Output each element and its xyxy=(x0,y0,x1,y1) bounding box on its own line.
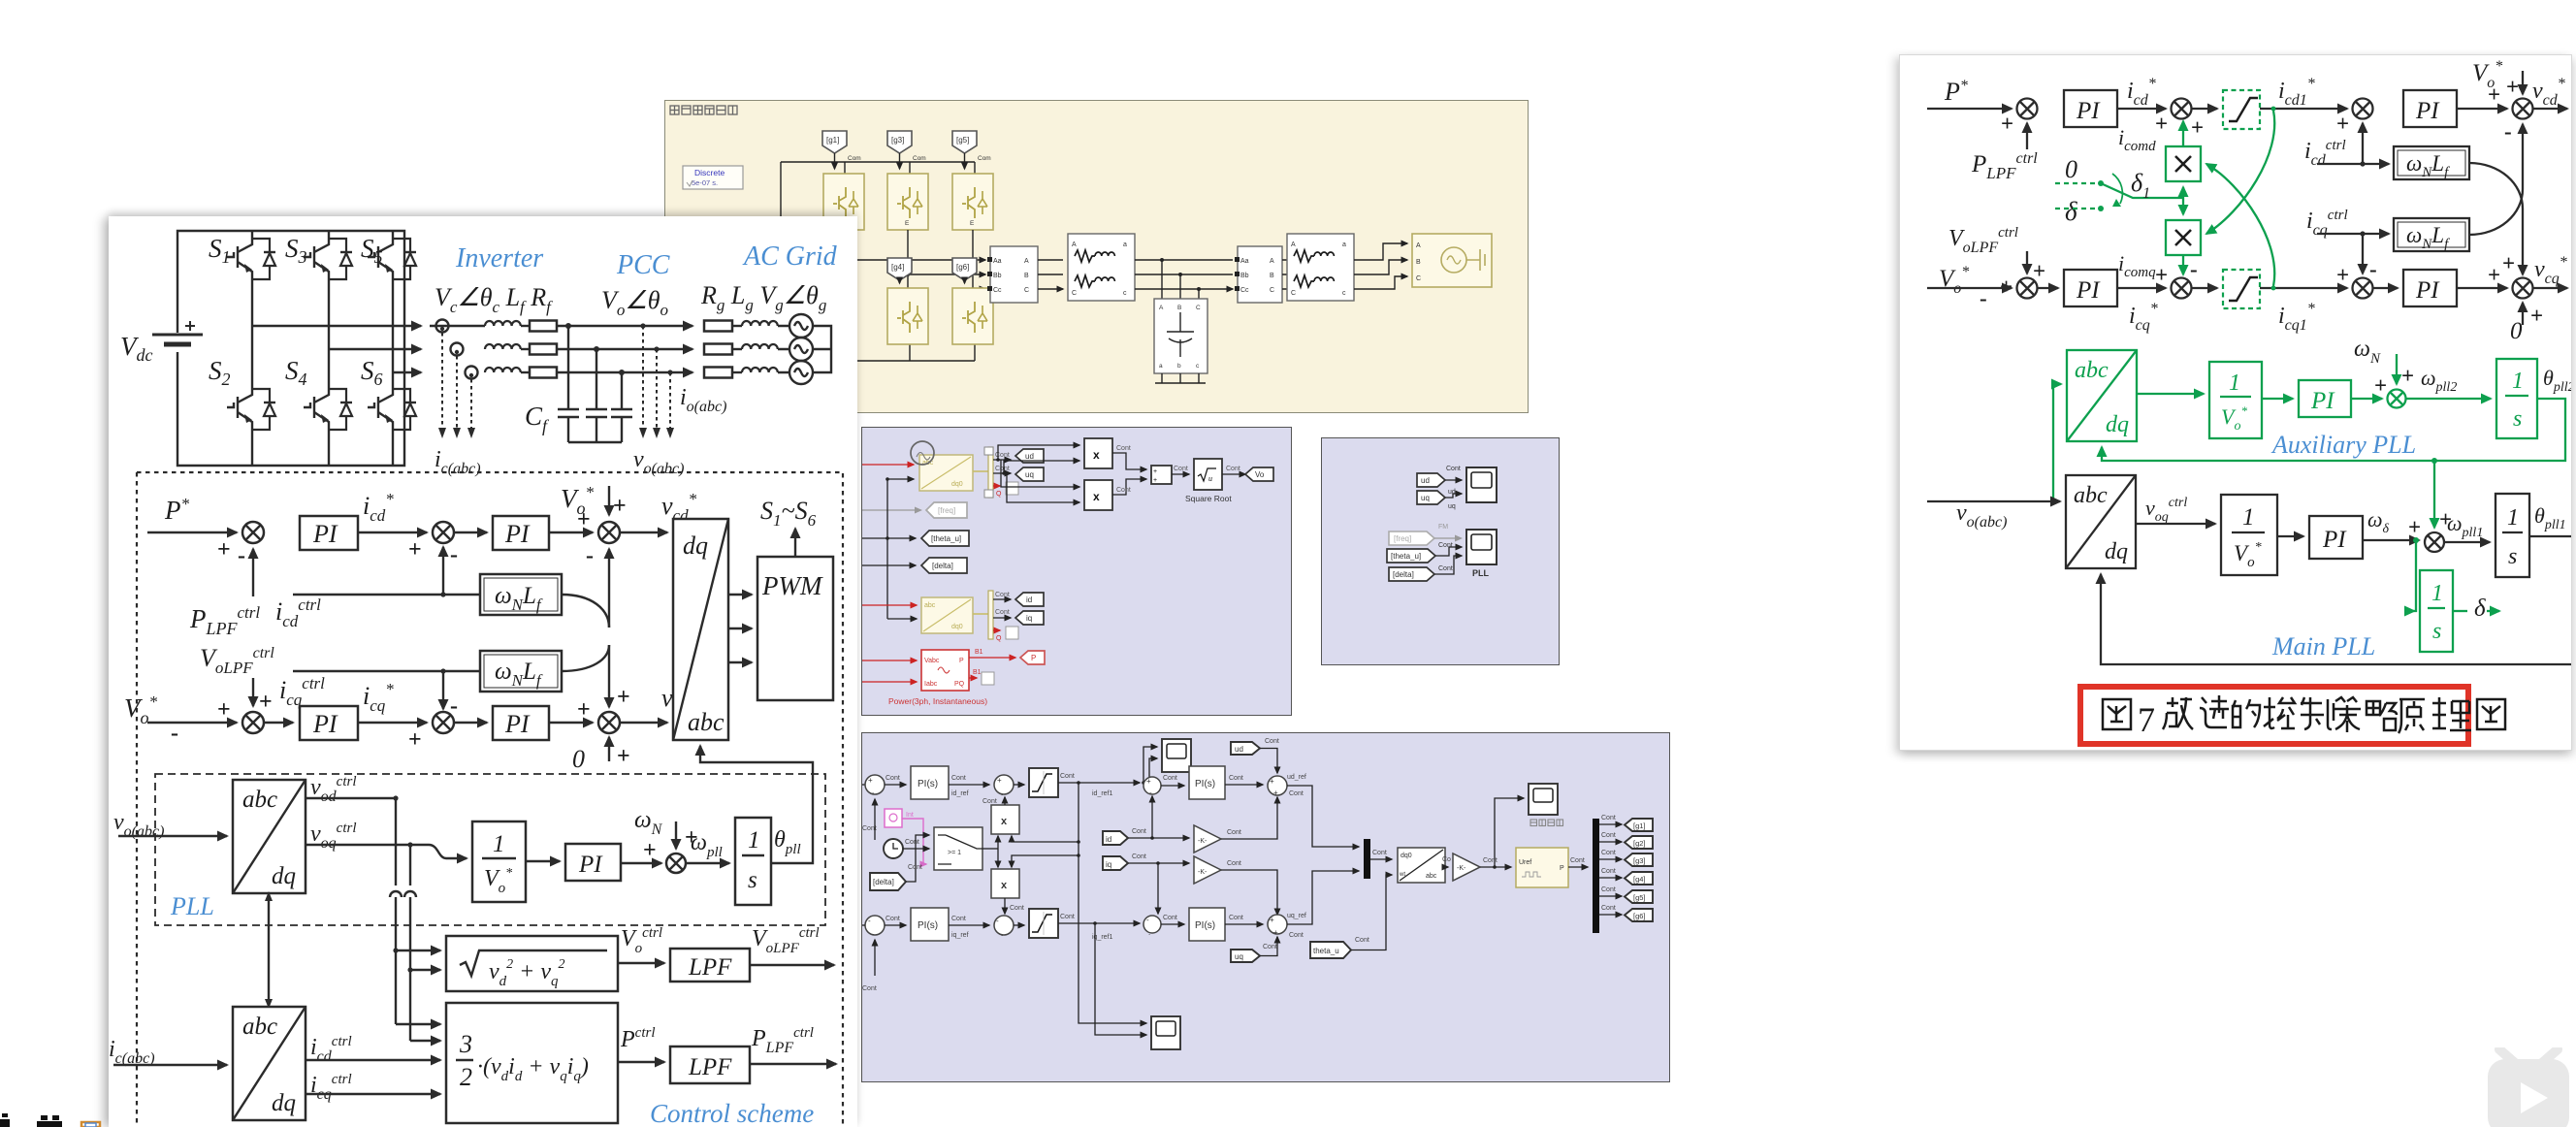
goto tag iq xyxy=(1015,611,1044,625)
dashed measurement ic c xyxy=(470,379,472,428)
svg-text:C: C xyxy=(1416,275,1421,282)
svg-text:+: + xyxy=(2502,251,2515,275)
capacitor Cf phase b xyxy=(586,349,607,442)
wire phase b from leg2 xyxy=(329,348,421,350)
svg-text:Cont: Cont xyxy=(1163,775,1177,782)
svg-text:Cont: Cont xyxy=(995,592,1010,598)
svg-text:ic(abc): ic(abc) xyxy=(435,447,481,477)
wires meas2 to RLC2 xyxy=(1281,259,1283,261)
svg-text:Cont: Cont xyxy=(1570,857,1585,864)
svg-text:LPF: LPF xyxy=(688,954,732,981)
wire summid to sat2 xyxy=(1014,924,1024,926)
svg-text:[g1]: [g1] xyxy=(826,136,839,145)
svg-text:δ: δ xyxy=(2474,596,2486,622)
svg-text:voqctrl: voqctrl xyxy=(2145,496,2187,525)
svg-text:s: s xyxy=(2513,406,2522,432)
wire delta xyxy=(862,564,916,566)
wire vcd out xyxy=(2532,108,2567,110)
svg-text:.: . xyxy=(1148,928,1150,937)
wire demux to ud xyxy=(993,459,1011,461)
svg-text:icd*: icd* xyxy=(363,490,394,525)
svg-text:Com: Com xyxy=(913,155,926,162)
svg-text:A: A xyxy=(1024,258,1029,265)
wire phase C to measurement xyxy=(973,288,985,290)
PI controller box 3 xyxy=(300,706,358,740)
svg-text:Cont: Cont xyxy=(1227,860,1241,867)
wire PLPF into sum r1 xyxy=(2026,123,2028,149)
multiply block 2 xyxy=(1084,480,1112,510)
sum junction r2 xyxy=(2172,99,2192,119)
wire demux2 to id xyxy=(993,598,1011,600)
clock block xyxy=(884,839,903,858)
svg-text:Cont: Cont xyxy=(1438,542,1453,549)
PI box r3 xyxy=(2064,270,2117,306)
wire PI r1 to sum r2 xyxy=(2117,108,2166,110)
svg-text:Square Root: Square Root xyxy=(1185,494,1232,503)
wire black into dq0-1 xyxy=(887,478,914,480)
svg-text:[g4]: [g4] xyxy=(1633,875,1646,884)
svg-text:+: + xyxy=(2506,75,2519,99)
svg-text:vo(abc): vo(abc) xyxy=(633,447,684,477)
wire sat1 to sum4 xyxy=(1058,782,1140,784)
svg-text:Cont: Cont xyxy=(995,466,1010,472)
wire demux2 to iq xyxy=(993,617,1011,619)
bottom-left glyph fragments xyxy=(0,1113,116,1127)
goto tag uq xyxy=(1015,467,1044,481)
three phase VI measurement 1 xyxy=(987,246,1038,303)
caption glyph jin xyxy=(2200,695,2229,727)
wires into multiply 2 xyxy=(1001,460,1079,487)
current sensor phase b xyxy=(451,343,464,356)
from tag delta c xyxy=(870,873,906,890)
sum junction c2 xyxy=(994,775,1014,794)
svg-text:B: B xyxy=(1024,273,1029,279)
svg-text:LPF: LPF xyxy=(688,1054,732,1080)
scope c-bottom xyxy=(1151,1016,1180,1049)
capacitor Cf phase a xyxy=(558,326,579,442)
svg-text:PI: PI xyxy=(2322,527,2347,553)
svg-text:ωN: ωN xyxy=(634,807,663,838)
svg-text:uq: uq xyxy=(1235,952,1243,961)
svg-text:Uref: Uref xyxy=(1519,859,1531,866)
svg-text:ud: ud xyxy=(1025,452,1034,461)
svg-text:PI(s): PI(s) xyxy=(918,779,938,789)
wire sum r5 to PI r3 xyxy=(2037,287,2058,289)
wire freq xyxy=(862,509,920,511)
wire into sum1 xyxy=(862,784,865,786)
caption glyph li xyxy=(2432,697,2471,730)
wire sqrt to Vo tag xyxy=(1222,473,1245,475)
sum junction 7 xyxy=(666,853,686,873)
IGBT block bottom 2 xyxy=(887,288,928,344)
svg-text:[freq]: [freq] xyxy=(1394,534,1411,543)
sum block xyxy=(1151,466,1172,484)
wire gain1 to sum6 bottom xyxy=(1221,797,1277,839)
svg-text:abc: abc xyxy=(1426,873,1437,880)
svg-text:x: x xyxy=(1001,880,1008,891)
svg-text:x: x xyxy=(1093,448,1100,462)
dashed measurement ic a xyxy=(441,333,443,428)
PI(s) block 2 xyxy=(911,908,949,941)
green wire X1 up to sum r2 xyxy=(2182,145,2184,146)
svg-text:Cc: Cc xyxy=(993,287,1002,294)
wire LPF1 out xyxy=(750,964,834,966)
sum junction 2 xyxy=(433,522,454,543)
wire PLPF to sum1 xyxy=(252,549,254,596)
wire PI4 to sum6 xyxy=(549,722,593,724)
PI controller box 1 xyxy=(300,516,358,550)
IGBT S2 xyxy=(227,381,275,437)
main integrator block xyxy=(2495,494,2529,577)
wire limiter2 to sum r7 xyxy=(2260,287,2347,289)
wire grid phase B xyxy=(1354,260,1407,274)
sum junction 1 xyxy=(242,522,264,543)
svg-text:Com: Com xyxy=(848,155,861,162)
IGBT S6 xyxy=(368,381,416,437)
goto tag P red xyxy=(1020,651,1045,664)
svg-text:+: + xyxy=(2336,263,2349,287)
svg-text:Co: Co xyxy=(1442,856,1451,863)
phase drop column2 xyxy=(907,230,909,288)
svg-text:icdctrl: icdctrl xyxy=(275,596,321,630)
switch lever xyxy=(2101,183,2183,198)
wire theta pll feedback to dq block xyxy=(700,746,813,863)
svg-text:+: + xyxy=(577,697,591,723)
wire sat2 to sum5 xyxy=(1058,922,1140,924)
from tag ud c xyxy=(1231,742,1260,755)
svg-text:B: B xyxy=(1416,259,1421,266)
abc to dq transform block 2 xyxy=(233,1007,306,1120)
main abc-dq block xyxy=(2066,475,2136,568)
svg-text:+: + xyxy=(2336,112,2349,136)
svg-text:[g3]: [g3] xyxy=(891,136,904,145)
dashed measurement vo c xyxy=(669,372,671,428)
wire iq to gain2 xyxy=(1128,862,1189,864)
simulink measurement panel (lavender A) xyxy=(861,427,1292,716)
dq to abc transform block xyxy=(673,519,728,740)
svg-text:+: + xyxy=(1273,928,1278,937)
svg-text:+: + xyxy=(2374,373,2387,398)
wire demux to g4 xyxy=(1599,877,1622,879)
svg-text:C: C xyxy=(1072,290,1077,297)
from tag g4 xyxy=(887,258,912,280)
resistor Rg phase b xyxy=(704,344,732,355)
svg-text:a: a xyxy=(1342,241,1346,248)
inductor Lf phase c xyxy=(485,368,521,372)
wires into power block from taps xyxy=(396,1023,440,1025)
svg-text:Iabc: Iabc xyxy=(924,681,938,688)
svg-text:s: s xyxy=(2508,544,2517,569)
green input into aux abc-dq xyxy=(2053,384,2061,501)
resistor Rf phase c xyxy=(521,371,530,373)
svg-text:5e-07 s.: 5e-07 s. xyxy=(692,178,718,187)
svg-text:Cont: Cont xyxy=(951,916,966,922)
svg-text:Cont: Cont xyxy=(1446,466,1461,472)
svg-text:Com: Com xyxy=(978,155,991,162)
svg-text:+: + xyxy=(2033,259,2045,283)
svg-text:1: 1 xyxy=(493,831,505,857)
svg-text:B1: B1 xyxy=(975,649,983,656)
svg-text:S2: S2 xyxy=(209,356,231,389)
svg-text:PLPFctrl: PLPFctrl xyxy=(751,1025,814,1056)
pink wire to switch xyxy=(902,819,926,864)
svg-text:PI: PI xyxy=(312,710,338,738)
svg-text:P*: P* xyxy=(1944,78,1968,106)
sum junction c5 xyxy=(1143,916,1161,933)
wire id to gain1 xyxy=(1128,837,1189,839)
svg-text:Cf: Cf xyxy=(525,402,550,435)
from tag g6 xyxy=(952,258,977,280)
svg-text:C: C xyxy=(1291,290,1296,297)
wire icd ctrl feed xyxy=(293,594,480,596)
goto tag delta xyxy=(921,558,967,573)
from tag uq c xyxy=(1231,950,1260,962)
wire icq ctrl feed r xyxy=(2317,233,2389,235)
svg-text:[g5]: [g5] xyxy=(956,136,969,145)
svg-text:>= 1: >= 1 xyxy=(948,850,961,856)
wire PI1 to sum2 xyxy=(949,784,989,786)
wire sum5 to PI4 xyxy=(1161,923,1184,925)
riser id to sum4 xyxy=(1150,836,1154,840)
AC source Vg phase c xyxy=(789,361,813,384)
PLL dashed box xyxy=(155,774,825,925)
svg-text:+: + xyxy=(1270,777,1274,786)
PI controller box 5 xyxy=(565,844,621,881)
wires into sqrt xyxy=(396,950,440,951)
bilibili play logo xyxy=(2486,1047,2576,1127)
svg-text:VoLPFctrl: VoLPFctrl xyxy=(752,925,820,956)
svg-text:3: 3 xyxy=(459,1030,472,1058)
svg-text:C: C xyxy=(1024,287,1029,294)
wire grid phase C xyxy=(1354,276,1407,289)
green feedback theta pll2 xyxy=(2102,399,2565,461)
svg-text:ωδ: ωδ xyxy=(2367,507,2390,536)
main input wire xyxy=(1927,500,2060,502)
cross coupling curve from wNLf1 down xyxy=(562,595,609,628)
svg-text:+: + xyxy=(2488,263,2500,287)
svg-text:+: + xyxy=(2155,112,2168,136)
simulink inner control panel (lavender C) xyxy=(861,732,1670,1082)
svg-text:FM: FM xyxy=(1438,524,1448,531)
AC source Vg phase a xyxy=(789,314,813,338)
svg-text:Inverter: Inverter xyxy=(455,243,543,274)
from tag ud xyxy=(1417,473,1445,487)
gate wires g4 g6 xyxy=(899,280,901,283)
svg-text:VoLPFctrl: VoLPFctrl xyxy=(1948,225,2018,256)
goto tag Vo xyxy=(1245,467,1273,481)
sum junction r8 xyxy=(2513,278,2533,299)
wire PWM to S1~S6 xyxy=(794,529,796,557)
inverter leg 1 wire xyxy=(251,287,253,466)
wires dq block to PWM xyxy=(728,594,752,596)
riser iq to sum5 xyxy=(1156,861,1160,865)
goto tag g3 xyxy=(1625,853,1653,866)
svg-text:+: + xyxy=(617,685,630,710)
from tag delta xyxy=(1389,567,1434,581)
demux bar 2 xyxy=(973,613,988,615)
LPF box 1 xyxy=(670,949,750,982)
red caption box xyxy=(2080,687,2468,744)
svg-text:Cont: Cont xyxy=(982,798,997,805)
wire limiter1 to sum r3 xyxy=(2260,108,2347,110)
svg-text:+: + xyxy=(217,697,231,723)
phase drop column1 xyxy=(843,230,845,288)
wire Vo* to sum r5 xyxy=(1927,287,2012,289)
wire red into dq0-1 xyxy=(862,464,914,466)
svg-text:+: + xyxy=(2408,515,2421,539)
from tag id xyxy=(1103,831,1128,845)
IGBT block top 3 xyxy=(952,174,993,230)
wNLf box 1 xyxy=(480,574,562,615)
coupling curve wNLf2 to sum r4 xyxy=(2469,124,2523,235)
svg-text:+: + xyxy=(1146,777,1151,786)
svg-text:dq0: dq0 xyxy=(1401,853,1412,859)
node phase a to Cf xyxy=(565,323,571,329)
switch arc arrow xyxy=(2112,174,2122,204)
sum junction c1 xyxy=(865,775,885,794)
saturation block 2 xyxy=(1029,909,1058,938)
svg-text:.: . xyxy=(1001,789,1003,797)
svg-text:uq_ref: uq_ref xyxy=(1287,913,1306,919)
svg-text:Cont: Cont xyxy=(862,825,877,832)
svg-text:1: 1 xyxy=(2431,581,2443,606)
svg-text:Pctrl: Pctrl xyxy=(620,1025,656,1052)
svg-text:abc: abc xyxy=(688,708,724,736)
goto tag ud xyxy=(1015,449,1044,463)
wire demux to g5 xyxy=(1599,895,1622,897)
svg-text:S1: S1 xyxy=(209,234,231,267)
svg-text:s: s xyxy=(748,867,757,893)
wire aux PI to sum g1 xyxy=(2351,398,2382,400)
svg-text:uq: uq xyxy=(1421,494,1430,502)
svg-text:B1: B1 xyxy=(973,669,982,676)
svg-text:+: + xyxy=(2530,304,2543,328)
svg-text:Bb: Bb xyxy=(993,273,1002,279)
wire freq to scope xyxy=(1434,537,1455,539)
wire icd ctrl to power block xyxy=(306,1059,440,1061)
LPF box 2 xyxy=(670,1046,750,1083)
risers into top scope xyxy=(1142,781,1145,785)
svg-text:δ: δ xyxy=(2065,197,2077,226)
wire Iabc in xyxy=(862,681,917,683)
wire PI3 to sum6 xyxy=(1225,784,1263,786)
svg-text:ωN: ωN xyxy=(2354,337,2381,367)
main feedback wire xyxy=(2101,574,2571,664)
sum junction 5 xyxy=(433,712,454,733)
svg-text:A: A xyxy=(1270,258,1274,265)
wire vcq out xyxy=(2532,287,2567,289)
svg-text:PI: PI xyxy=(2076,277,2101,304)
wire vod xyxy=(306,797,396,799)
svg-text:0: 0 xyxy=(2510,318,2523,344)
svg-text:Cont: Cont xyxy=(862,985,877,992)
wire mux to dq0 xyxy=(1370,858,1392,860)
wire phase a from leg1 xyxy=(252,325,421,327)
svg-text:Cont: Cont xyxy=(908,864,922,871)
green vertical into X1 and X2 xyxy=(2182,187,2184,198)
svg-text:icomd: icomd xyxy=(2118,125,2156,154)
svg-text:+: + xyxy=(2155,263,2168,287)
svg-text:Cont: Cont xyxy=(1116,487,1131,494)
grid neutral bus xyxy=(813,326,831,372)
svg-text:+: + xyxy=(1153,477,1157,484)
abc to dq0 transform block 2 xyxy=(921,597,973,633)
wire PI3 to sum5 xyxy=(358,722,427,724)
wire sum4 to PI3 xyxy=(1161,785,1184,787)
wire phase b to Rg xyxy=(557,348,692,350)
inductor Lf phase a xyxy=(485,321,521,326)
svg-text:PWM: PWM xyxy=(761,571,823,600)
svg-text:dq: dq xyxy=(2106,412,2129,437)
svg-text:-: - xyxy=(238,543,245,568)
multiply block c1 xyxy=(991,805,1019,834)
svg-text:id_ref: id_ref xyxy=(951,790,969,797)
svg-text:Control scheme: Control scheme xyxy=(650,1099,814,1127)
svg-text:Cont: Cont xyxy=(1229,775,1243,782)
wire sum to sqrt xyxy=(1172,473,1189,475)
svg-text:iq: iq xyxy=(1106,860,1111,869)
scope modulation xyxy=(1529,784,1558,815)
wire sum3 to PI2 xyxy=(885,924,906,926)
aux integrator green xyxy=(2496,359,2537,438)
svg-text:Auxiliary PLL: Auxiliary PLL xyxy=(2270,431,2416,459)
svg-text:b: b xyxy=(1177,363,1181,370)
svg-text:io(abc): io(abc) xyxy=(680,385,726,415)
PI(s) block 1 xyxy=(911,766,949,799)
wire grid phase A xyxy=(1354,243,1407,260)
svg-text:id_ref1: id_ref1 xyxy=(1092,790,1113,797)
svg-text:+: + xyxy=(408,727,422,753)
green wire omegaN into sum g1 xyxy=(2396,354,2398,384)
svg-text:.: . xyxy=(872,928,874,937)
integrator 1/s block xyxy=(735,818,771,905)
svg-text:+: + xyxy=(617,744,630,769)
wire zero into sum r8 xyxy=(2522,303,2524,325)
wire VoLPF into sum4 xyxy=(252,678,254,706)
abc to dq transform block PLL xyxy=(233,780,306,893)
wire P out to tag xyxy=(969,657,1015,659)
resistor Rg phase c xyxy=(704,368,732,378)
svg-text:A: A xyxy=(1291,241,1296,248)
wire ic(abc) into block xyxy=(113,1064,227,1066)
svg-text:PLPFctrl: PLPFctrl xyxy=(189,603,260,638)
dashed measurement vo a xyxy=(642,326,644,428)
goto tag id xyxy=(1015,593,1044,606)
svg-text:+: + xyxy=(868,776,873,785)
IGBT S1 xyxy=(227,231,275,287)
wire theta_u xyxy=(862,537,916,539)
sqrt block xyxy=(446,936,618,991)
multiply block 1 xyxy=(1084,438,1112,468)
coupling curve wNLf1 to sum r8 xyxy=(2469,163,2523,274)
svg-text:Cont: Cont xyxy=(1601,850,1616,856)
svg-text:Aa: Aa xyxy=(993,258,1002,265)
PI(s) block 3 xyxy=(1189,766,1225,799)
svg-text:Cont: Cont xyxy=(995,609,1010,616)
wire sum7 to integrator xyxy=(686,862,729,864)
wire uq into sum7 bottom xyxy=(1260,937,1277,956)
svg-text:+: + xyxy=(997,776,1002,785)
IGBT block top 1 xyxy=(823,174,864,230)
svg-text:ωpll2: ωpll2 xyxy=(2421,366,2457,395)
sum junction 4 xyxy=(242,712,264,733)
gain block 2 xyxy=(1194,856,1221,884)
wire sum r2 to limiter1 xyxy=(2191,108,2217,110)
from tag uq xyxy=(1417,491,1445,504)
svg-text:c: c xyxy=(1342,290,1346,297)
svg-text:c: c xyxy=(1123,290,1127,297)
wire sum2 to PI2 xyxy=(454,531,487,533)
